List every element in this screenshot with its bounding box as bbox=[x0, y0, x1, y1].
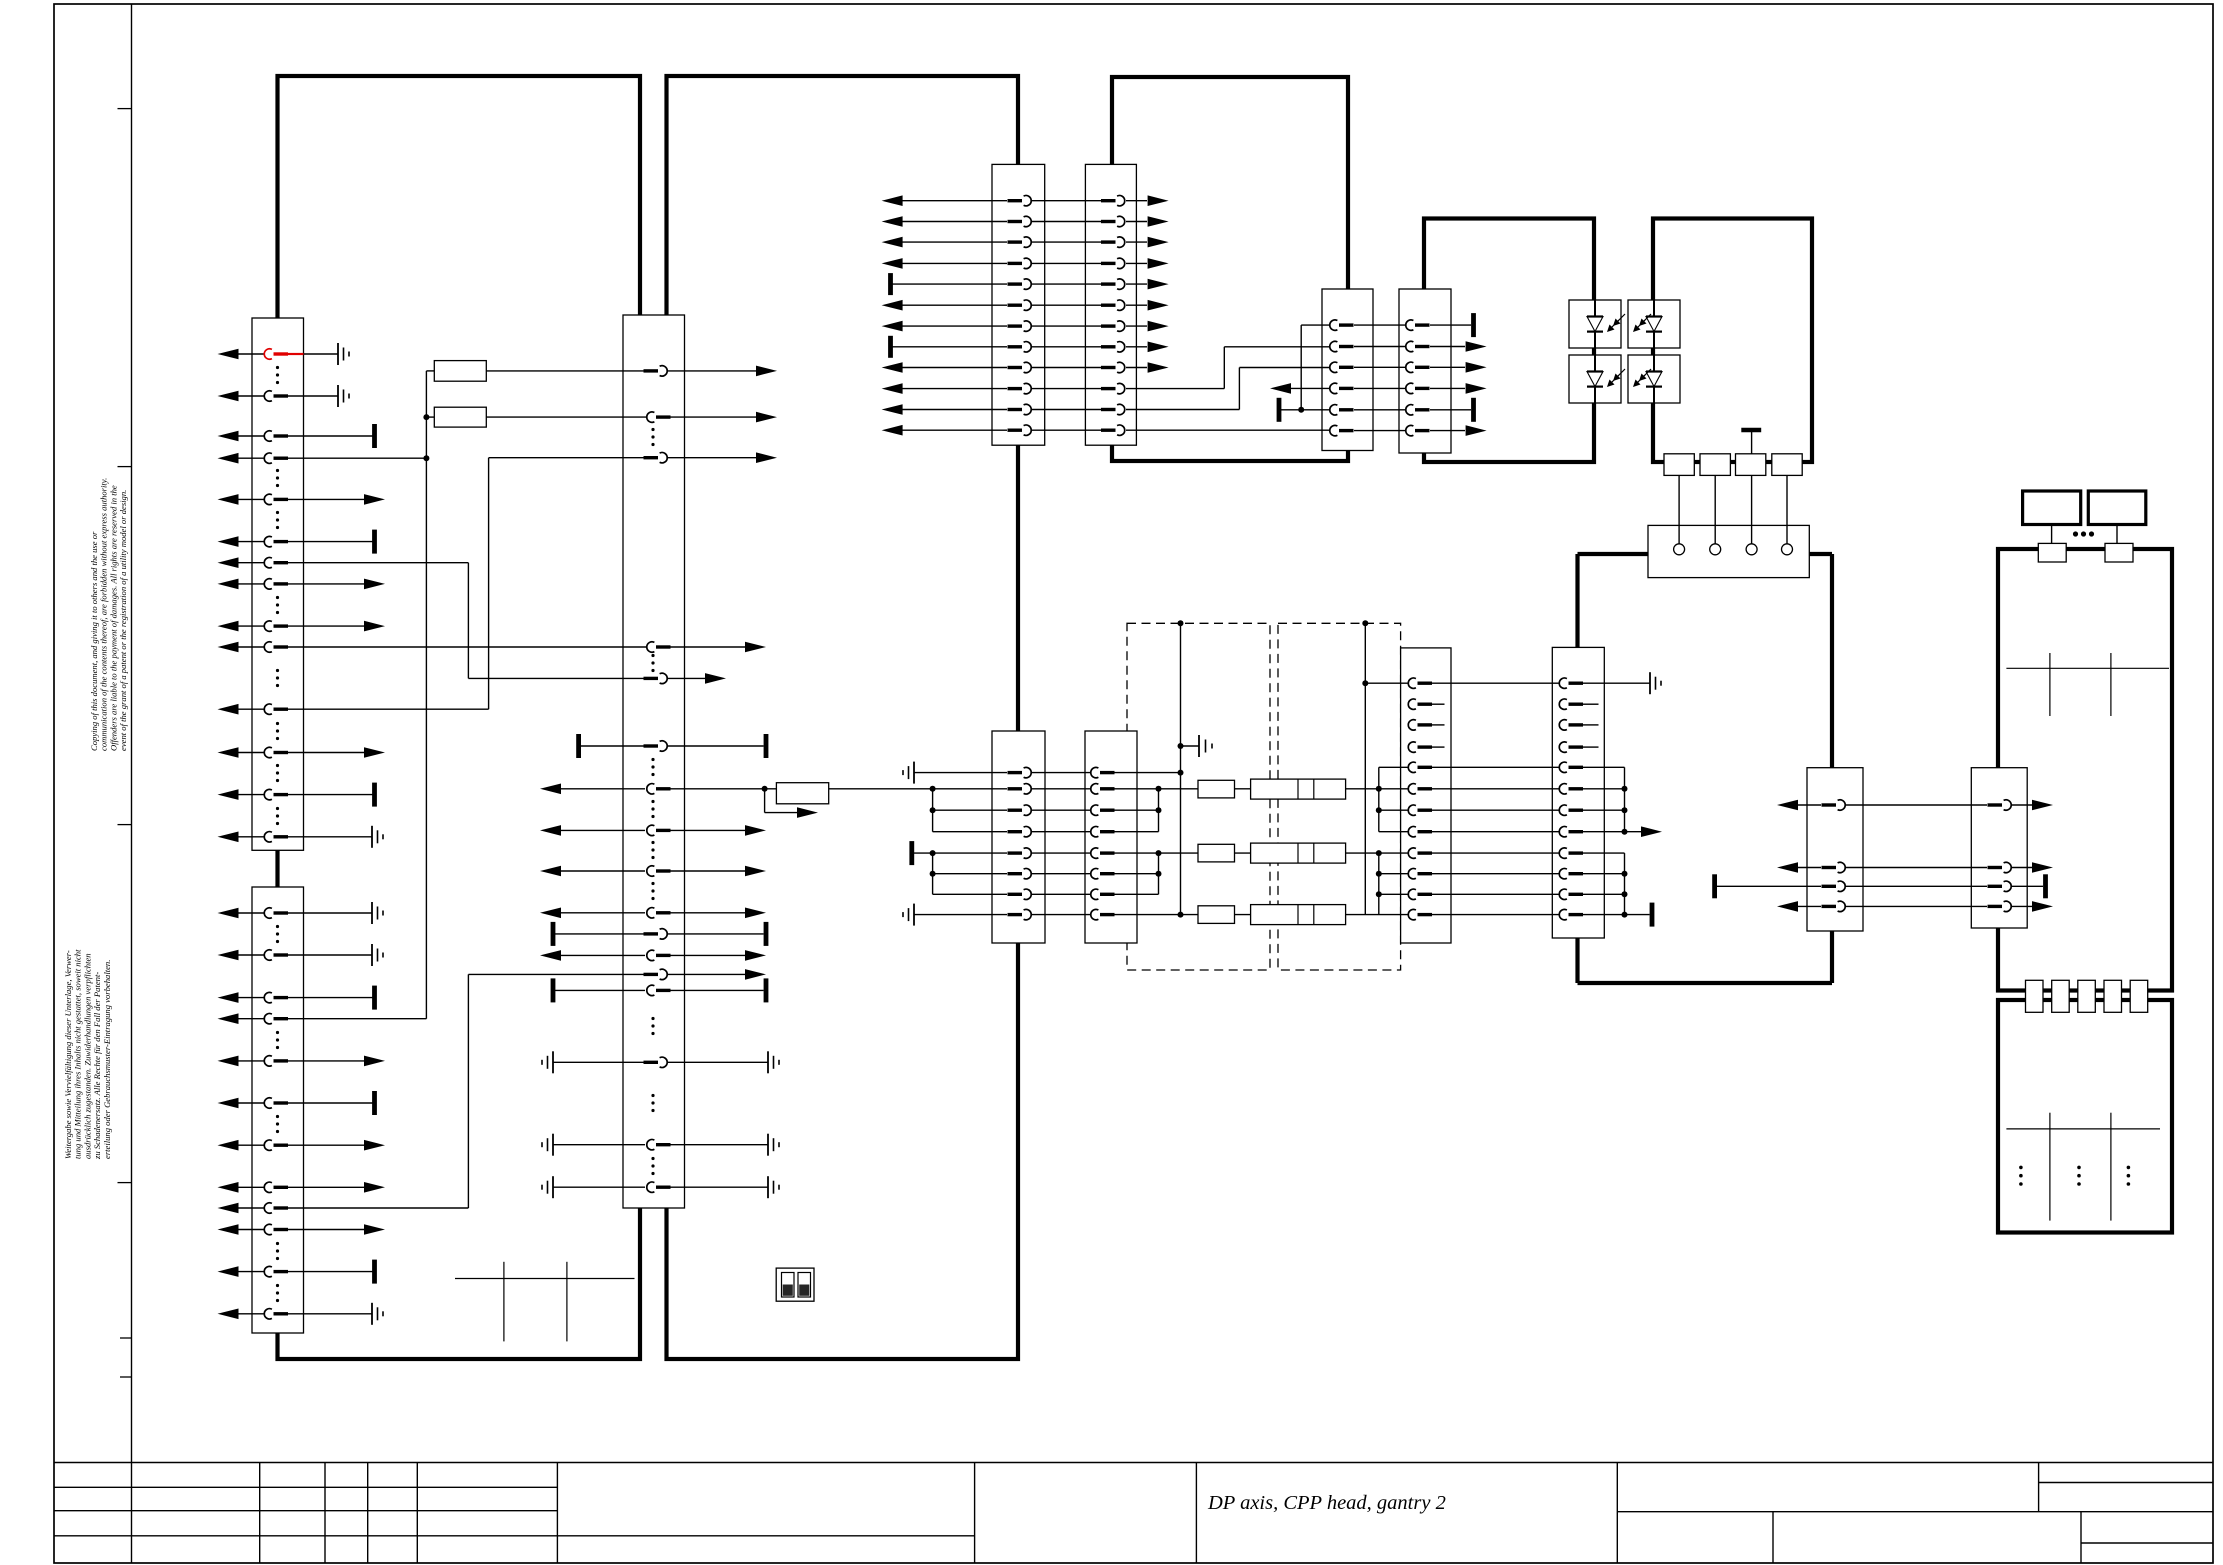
connector X12 pin 4 bbox=[1822, 905, 1837, 908]
connector X7 pin 5 bbox=[1415, 408, 1430, 411]
connector X7 pin 4 bbox=[1415, 387, 1430, 390]
signal row 11 through connectors X4 X5 bbox=[882, 404, 903, 415]
connector X2 pin 5 bbox=[218, 1056, 239, 1067]
connector X10 pin 1 bbox=[1418, 682, 1433, 685]
connector X11 pin 2 bbox=[1569, 703, 1584, 706]
connector X12 pin 1 bbox=[1822, 803, 1837, 806]
wire X8 to X9 row 4 bbox=[1031, 831, 1091, 833]
shield riser with ground bbox=[1180, 623, 1182, 914]
wires resistor to filter body bbox=[1235, 788, 1251, 790]
terminal adapter boxes on RB1 top edge bbox=[2038, 543, 2066, 562]
connector X2 pin 8 bbox=[218, 1182, 239, 1193]
module frame M (second large block) bbox=[667, 76, 1019, 1359]
connector X1 pin 9 bbox=[218, 621, 239, 632]
connector X3 pin 8 bbox=[656, 829, 671, 832]
capacitor cross figure in RB2 bbox=[2006, 1128, 2160, 1130]
connector X2 pin 10 bbox=[218, 1224, 239, 1235]
ellipsis dots between terminal modules bbox=[2073, 531, 2078, 536]
connector X6 pin 6 bbox=[1339, 429, 1354, 432]
connector X6 body (mid-top right pair left) bbox=[1322, 289, 1373, 451]
ground at X11 pin1 bbox=[1583, 682, 1650, 684]
signal row 4 through connectors X4 X5 bbox=[882, 258, 903, 269]
connector X10 pin 8 bbox=[1418, 830, 1433, 833]
wires terminal modules to adapters bbox=[2051, 525, 2053, 544]
antenna stub bar above fuse F3 bbox=[1741, 428, 1761, 433]
connector X1 pin 7 bbox=[218, 557, 239, 568]
wire riser to resistors R1 R2 and X2 pin 4 bbox=[425, 371, 427, 1019]
connector X7 pin 3 termination bbox=[1430, 366, 1465, 368]
connector X10 pin 9 bbox=[1418, 851, 1433, 854]
connector X3 pin 14 bbox=[656, 989, 671, 992]
connector X11 pin 6 bbox=[1569, 787, 1584, 790]
connector X3 pin 6 bbox=[644, 744, 659, 747]
ground into X8 pin8 bbox=[913, 904, 915, 926]
signal row 10 through connectors X4 X5 bbox=[882, 383, 903, 394]
connector X11 pin 1 bbox=[1569, 682, 1584, 685]
row group riser right of X9 rows2-4 bbox=[1158, 789, 1160, 832]
wire X9 pin8 to filter FL3 bbox=[1115, 914, 1199, 916]
optocoupler U1 bbox=[1569, 300, 1621, 348]
connector X2 pin 3 bbox=[218, 992, 239, 1003]
connector X6 pin 3 bbox=[1339, 366, 1354, 369]
connector X10 pin 2 bbox=[1418, 703, 1433, 706]
connector X2 pin 2 bbox=[218, 950, 239, 961]
series resistor R3 bbox=[776, 783, 828, 804]
fuse F1 on frame V bottom bbox=[1664, 454, 1694, 476]
connector X13 pin 3 bbox=[1988, 885, 2003, 888]
connector X11 pin 12 bbox=[1569, 913, 1584, 916]
wire R2 output to X3 pin 2 bbox=[486, 416, 647, 418]
connector X2 pin 6 bbox=[218, 1098, 239, 1109]
connector X2 pin 7 bbox=[218, 1140, 239, 1151]
connector X11 pin 5 bbox=[1569, 766, 1584, 769]
tbar tree rows5-7 into X8 bbox=[909, 841, 914, 865]
connector X3 pin 13 bbox=[644, 973, 659, 976]
wire X8 to X9 row 2 bbox=[1031, 788, 1091, 790]
connector X8 pin 1 bbox=[1008, 771, 1023, 774]
connector X11 pin 8 bbox=[1569, 830, 1584, 833]
terminal module X20 (bold box) bbox=[2023, 491, 2081, 525]
optocoupler U2 bbox=[1628, 300, 1680, 348]
connector X13 pin 1 bbox=[1988, 803, 2003, 806]
wire X8 to X9 row 7 bbox=[1031, 893, 1091, 895]
connector X9 pin 7 bbox=[1100, 893, 1115, 896]
connector X11 body (right section) bbox=[1552, 647, 1604, 938]
connector X12 pin 2 bbox=[1822, 866, 1837, 869]
wire X6 pin5 tbar and riser to pin1 bbox=[1277, 398, 1282, 422]
connector X7 pin 2 termination bbox=[1430, 346, 1465, 348]
connector X12 pin 3 bbox=[1822, 885, 1837, 888]
wire X3 pin 3 to X1 pin 11 bbox=[488, 458, 490, 710]
connector X4 body (top pair left) bbox=[992, 164, 1045, 445]
ellipsis dots connector X1 bbox=[276, 366, 279, 369]
connector X8 pin 4 bbox=[1008, 830, 1023, 833]
connector X3 pin 2 bbox=[656, 415, 671, 418]
connector X7 pin 2 bbox=[1415, 345, 1430, 348]
connector X1 pin 12 bbox=[218, 747, 239, 758]
wire X12 to X13 row 1 bbox=[1846, 804, 1987, 806]
connector X10 pin 6 bbox=[1418, 787, 1433, 790]
connector X6 pin 2 bbox=[1339, 345, 1354, 348]
connector X7 pin 6 bbox=[1415, 429, 1430, 432]
row group riser right of X9 rows5-7 bbox=[1158, 853, 1160, 894]
group riser X10 rows5-8 bbox=[1378, 767, 1380, 831]
step wire X5 row10 up to X6 pin2 bbox=[1223, 347, 1225, 389]
title block verticals bbox=[131, 1463, 133, 1564]
connector X8 pin 3 bbox=[1008, 809, 1023, 812]
module frame U bbox=[1424, 219, 1594, 463]
wire shield riser to X10 pin1 bbox=[1365, 682, 1408, 684]
connector X1 pin 2 bbox=[218, 391, 239, 402]
step wire X5 row11 up to X6 pin3 bbox=[1238, 368, 1240, 410]
connector X1 pin 8 bbox=[218, 579, 239, 590]
filter network FL1 bbox=[1198, 780, 1235, 798]
connector X7 pin 1 termination bbox=[1430, 324, 1471, 326]
filter network FL3 bbox=[1198, 906, 1235, 924]
connector X7 body (mid-top right pair right) bbox=[1399, 289, 1451, 453]
wire X12 to X13 row 2 bbox=[1846, 867, 1987, 869]
connector X6 pin 1 bbox=[1339, 323, 1354, 326]
signal row 6 through connectors X4 X5 bbox=[882, 300, 903, 311]
connector X1 pin 6 bbox=[218, 536, 239, 547]
connector X1 pin 14 bbox=[218, 832, 239, 843]
connector X5 body (top pair right) bbox=[1085, 164, 1136, 445]
connector X3 pin 7 with branch arrow and series resistor R3 bbox=[656, 787, 671, 790]
capacitor cross figure in RB1 bbox=[2006, 667, 2169, 669]
svg-text:event of the grant of a patent: event of the grant of a patent or the re… bbox=[118, 490, 128, 751]
connector X10 pin 11 bbox=[1418, 893, 1433, 896]
connector X6 pin 5 bbox=[1339, 408, 1354, 411]
wire X8 to X9 row 3 bbox=[1031, 809, 1091, 811]
connector X13 pin 4 bbox=[1988, 905, 2003, 908]
wire X9 pin2 to filter FL1 bbox=[1115, 788, 1199, 790]
group riser X11 rows5-8 with arrow bbox=[1583, 766, 1625, 768]
connector X11 pin 7 bbox=[1569, 809, 1584, 812]
wire filter FL2 to X10 pin9 bbox=[1346, 852, 1408, 854]
svg-text:Weitergabe sowie Vervielfältig: Weitergabe sowie Vervielfältigung dieser… bbox=[63, 950, 73, 1159]
connector X2 pin 12 bbox=[218, 1309, 239, 1320]
connector X13 pin 2 bbox=[1988, 866, 2003, 869]
connector X9 pin 5 bbox=[1100, 851, 1115, 854]
svg-text:tung und Mitteilung ihres Inha: tung und Mitteilung ihres Inhalts nicht … bbox=[73, 949, 83, 1159]
connector X8 pin 7 bbox=[1008, 893, 1023, 896]
connector X3 body (middle column) bbox=[623, 315, 685, 1208]
connector X3 pin 17 bbox=[656, 1185, 671, 1188]
connector X3 pin 16 bbox=[656, 1143, 671, 1146]
connector X3 pin 5 bbox=[644, 677, 659, 680]
group riser X11 rows9-12 with terminator bbox=[1583, 852, 1625, 854]
connector X3 pin 9 bbox=[656, 869, 671, 872]
sidebar divider line bbox=[131, 4, 133, 1463]
wire X8 to X9 row 1 bbox=[1031, 772, 1091, 774]
wire X9 pin5 to filter FL2 bbox=[1115, 852, 1199, 854]
signal row 7 through connectors X4 X5 bbox=[882, 321, 903, 332]
svg-text:DP axis, CPP head, gantry 2: DP axis, CPP head, gantry 2 bbox=[1207, 1492, 1446, 1514]
wire R1 output to X3 pin 1 bbox=[486, 370, 644, 372]
wires from fuses to terminal strip sockets bbox=[1678, 475, 1680, 543]
title block horizontals bbox=[54, 1486, 557, 1488]
wire X3 pin 13 to X2 pin 9 bbox=[467, 974, 469, 1208]
fuse F3 on frame V bottom bbox=[1736, 454, 1766, 476]
stub wires X10 pins2-4 bbox=[1432, 703, 1445, 705]
connector X3 pin 12 bbox=[656, 954, 671, 957]
connector X9 pin 2 bbox=[1100, 787, 1115, 790]
wire X8 to X9 row 5 bbox=[1031, 852, 1091, 854]
wire X12 to X13 row 4 bbox=[1846, 905, 1987, 907]
connector X12 body bbox=[1807, 768, 1863, 931]
wire X12 to X13 row 3 bbox=[1846, 885, 1987, 887]
fuse F4 on frame V bottom bbox=[1772, 454, 1802, 476]
connector X2 pin 9 bbox=[218, 1203, 239, 1214]
group riser X10 rows9-12 bbox=[1378, 853, 1380, 915]
connector X9 body (center pair right) bbox=[1085, 731, 1137, 943]
connector X1 pin 11 bbox=[218, 704, 239, 715]
connector X11 pin 11 bbox=[1569, 893, 1584, 896]
svg-text:Offenders are liable to the pa: Offenders are liable to the payment of d… bbox=[108, 485, 118, 751]
module frame RB2 (right column lower) bbox=[1998, 1000, 2172, 1233]
DIP switch S1 bbox=[776, 1268, 814, 1301]
connector X8 body (center pair left) bbox=[992, 731, 1045, 943]
connector X7 pin 5 termination bbox=[1430, 409, 1471, 411]
wire filter FL1 to X10 pin6 bbox=[1346, 788, 1408, 790]
connector X3 pin 1 bbox=[644, 369, 659, 372]
svg-text:erteilung oder Gebrauchsmuster: erteilung oder Gebrauchsmuster-Eintragun… bbox=[102, 960, 112, 1159]
signal row 3 through connectors X4 X5 bbox=[882, 237, 903, 248]
wire X8 to X9 row 6 bbox=[1031, 873, 1091, 875]
connector X1 pin 1 bbox=[218, 349, 239, 360]
connector X8 pin 2 bbox=[1008, 787, 1023, 790]
connector X6 pin 4 bbox=[1339, 387, 1354, 390]
fuse F2 on frame V bottom bbox=[1700, 454, 1730, 476]
module frame L (left large block) bbox=[278, 76, 641, 1359]
fold tick marks on sidebar bbox=[118, 108, 132, 110]
cross figure in frame L bottom bbox=[455, 1278, 635, 1280]
svg-text:ausdrücklich zugestanden. Zuwi: ausdrücklich zugestanden. Zuwiderhandlun… bbox=[82, 953, 92, 1159]
shield dashed box A bbox=[1127, 623, 1270, 970]
connector X10 pin 12 bbox=[1418, 913, 1433, 916]
connector X11 pin 10 bbox=[1569, 872, 1584, 875]
module frame RB1 (right column upper) bbox=[1998, 549, 2172, 991]
connector X3 pin 10 bbox=[656, 911, 671, 914]
module frame R2 outline with terminal strip stubs bbox=[1578, 552, 1649, 556]
title block top line bbox=[54, 1462, 2213, 1464]
connector X9 pin 8 bbox=[1100, 913, 1115, 916]
fuse row between RB1 and RB2 bbox=[2026, 980, 2044, 1012]
connector X1 pin 10 bbox=[218, 642, 239, 653]
connector X9 pin 1 bbox=[1100, 771, 1115, 774]
svg-text:zu Schadenersatz. Alle Rechte: zu Schadenersatz. Alle Rechte für den Fa… bbox=[92, 972, 102, 1160]
wire X8 to X9 row 8 bbox=[1031, 914, 1091, 916]
wire filter FL3 to X10 pin12 bbox=[1346, 914, 1408, 916]
connector X1 pin 4 bbox=[218, 453, 239, 464]
connector X3 pin 15 bbox=[644, 1061, 659, 1064]
svg-text:Copying of this document, and: Copying of this document, and giving it … bbox=[89, 531, 99, 751]
connector X11 pin 3 bbox=[1569, 723, 1584, 726]
optocoupler U3 bbox=[1569, 355, 1621, 403]
connector X7 pin 4 termination bbox=[1430, 387, 1465, 389]
connector X10 pin 5 bbox=[1418, 766, 1433, 769]
connector X11 pin 4 bbox=[1569, 745, 1584, 748]
connector X1 pin 13 bbox=[218, 789, 239, 800]
module frame T (top middle block) bbox=[1112, 77, 1348, 461]
connector X2 body (lower left) bbox=[252, 887, 304, 1333]
resistor R1 (top left) bbox=[434, 361, 486, 382]
ellipsis dot columns in RB2 bbox=[2019, 1166, 2023, 1170]
wire X9 pin1 to shield riser bbox=[1115, 772, 1181, 774]
connector X3 pin 11 bbox=[644, 932, 659, 935]
connector X8 pin 6 bbox=[1008, 872, 1023, 875]
connector X10 pin 7 bbox=[1418, 809, 1433, 812]
wire X6 pin4 stub arrow bbox=[1291, 387, 1330, 389]
connector X10 body (right of filters) bbox=[1401, 648, 1451, 943]
optocoupler U4 bbox=[1628, 355, 1680, 403]
signal row 9 through connectors X4 X5 bbox=[882, 362, 903, 373]
resistor R2 (top left) bbox=[434, 407, 486, 427]
left tree rows2-4 into X8 bbox=[932, 789, 934, 832]
signal row 5 through connectors X4 X5 bbox=[888, 273, 893, 295]
connector X1 pin 3 bbox=[218, 431, 239, 442]
wire X1 pin 7 to X3 pin 5 bbox=[467, 563, 469, 679]
signal row 8 through connectors X4 X5 bbox=[888, 336, 893, 358]
connector X10 pin 3 bbox=[1418, 723, 1433, 726]
connector X3 pin 3 bbox=[644, 456, 659, 459]
connector X7 pin 6 termination bbox=[1430, 430, 1465, 432]
connector X10 pin 10 bbox=[1418, 872, 1433, 875]
shield dashed box B bbox=[1278, 623, 1401, 970]
connector X11 pin 9 bbox=[1569, 851, 1584, 854]
connector X10 pin 4 bbox=[1418, 745, 1433, 748]
connector X9 pin 3 bbox=[1100, 809, 1115, 812]
connector X13 body bbox=[1971, 768, 2027, 928]
connector X2 pin 11 bbox=[218, 1266, 239, 1277]
connector X9 pin 6 bbox=[1100, 872, 1115, 875]
svg-text:communication of the contents: communication of the contents thereof, a… bbox=[99, 478, 109, 751]
module frame V bbox=[1653, 219, 1812, 463]
connector X9 pin 4 bbox=[1100, 830, 1115, 833]
filter network FL2 bbox=[1198, 844, 1235, 862]
connector X2 pin 1 bbox=[218, 908, 239, 919]
connector X1 body (upper left) bbox=[252, 318, 304, 850]
terminal module X21 (bold box) bbox=[2088, 491, 2146, 525]
connector X7 pin 1 bbox=[1415, 323, 1430, 326]
ellipsis dots connector X2 bbox=[276, 925, 279, 928]
signal row 12 through connectors X4 X5 bbox=[882, 425, 903, 436]
wires X10 to X11 rows bbox=[1432, 682, 1559, 684]
connector X1 pin 5 bbox=[218, 494, 239, 505]
shield riser right bbox=[1364, 623, 1366, 914]
signal row 2 through connectors X4 X5 bbox=[882, 216, 903, 227]
ground into X8 pin1 bbox=[913, 762, 915, 784]
connector X2 pin 4 bbox=[218, 1013, 239, 1024]
connector X8 pin 5 bbox=[1008, 851, 1023, 854]
stub wires X11 pins2-4 bbox=[1583, 703, 1599, 705]
connector X3 pin 4 bbox=[656, 645, 671, 648]
signal row 1 through connectors X4 X5 bbox=[882, 195, 903, 206]
terminal strip with 4 sockets bbox=[1648, 525, 1809, 577]
ellipsis dots connector X3 bbox=[651, 428, 654, 431]
connector X8 pin 8 bbox=[1008, 913, 1023, 916]
connector X7 pin 3 bbox=[1415, 366, 1430, 369]
